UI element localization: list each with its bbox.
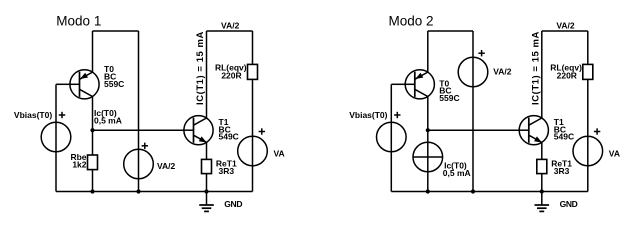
current source Ic(T0) xyxy=(413,142,443,172)
label + of VA xyxy=(594,131,600,133)
wire T0 base to Vbias xyxy=(56,83,70,85)
ground symbol xyxy=(199,192,214,212)
voltage source VA xyxy=(238,136,268,166)
label + of VA/2 xyxy=(478,52,484,54)
wire T0 base to Vbias xyxy=(391,83,405,85)
svg-text:VA/2: VA/2 xyxy=(493,67,512,77)
svg-text:VA/2: VA/2 xyxy=(221,20,240,30)
resistor RL(eqv) 220R xyxy=(248,64,258,79)
svg-text:RL(eqv)220R: RL(eqv)220R xyxy=(550,62,582,80)
wire T0 collector to node xyxy=(92,97,94,131)
wire T0 emitter to top rail xyxy=(92,31,94,72)
svg-text:T0BC559C: T0BC559C xyxy=(104,64,124,89)
ground rail xyxy=(391,191,588,193)
wire VA/2 branch vertical xyxy=(472,31,474,192)
label + of VA xyxy=(259,131,265,133)
wire node to T1 base xyxy=(428,129,519,131)
resistor ReT1 3R3 xyxy=(537,159,547,173)
ground symbol xyxy=(535,192,550,212)
transistor T1 (mode 1) xyxy=(184,116,213,145)
svg-text:IC(T1) = 15 mA: IC(T1) = 15 mA xyxy=(195,31,206,105)
wire node to T1 base xyxy=(93,129,184,131)
svg-text:RL(eqv)220R: RL(eqv)220R xyxy=(215,62,247,80)
svg-text:Vbias(T0): Vbias(T0) xyxy=(14,110,52,120)
voltage source VA xyxy=(573,136,603,166)
voltage source Vbias(T0) xyxy=(377,122,407,152)
transistor T0 (mode 2) xyxy=(405,70,434,99)
svg-text:T0BC559C: T0BC559C xyxy=(439,78,459,103)
node junction collector/base wire xyxy=(90,128,94,132)
svg-text:VA: VA xyxy=(609,148,620,158)
svg-text:Ic(T0)0,5 mA: Ic(T0)0,5 mA xyxy=(443,161,471,178)
wire top rail to RL branch xyxy=(542,30,588,32)
voltage source VA/2 (emitter supply) xyxy=(458,57,488,87)
svg-text:VA/2: VA/2 xyxy=(556,20,575,30)
node emitter branch at ground rail xyxy=(204,189,208,193)
node VA/2 branch at ground rail xyxy=(136,189,140,193)
node current source at ground rail xyxy=(426,189,430,193)
svg-text:T1BC549C: T1BC549C xyxy=(554,117,574,142)
wire T0 collector to node xyxy=(427,97,429,131)
node VA/2 branch at ground rail xyxy=(471,189,475,193)
wire node down to current source xyxy=(427,130,429,191)
svg-text:ReT13R3: ReT13R3 xyxy=(551,159,572,176)
transistor T0 (mode 1) xyxy=(70,70,99,99)
wire T0 emitter to top rail xyxy=(427,31,429,72)
svg-text:VA: VA xyxy=(274,148,285,158)
node junction collector/base wire xyxy=(426,128,430,132)
wire T1 collector up to VA/2 top rail xyxy=(206,31,208,118)
ground rail xyxy=(56,191,253,193)
svg-text:Modo 2: Modo 2 xyxy=(389,14,434,29)
wire top loop horizontal xyxy=(93,30,139,32)
svg-text:T1BC549C: T1BC549C xyxy=(219,117,239,142)
resistor ReT1 3R3 xyxy=(202,159,212,173)
svg-text:ReT13R3: ReT13R3 xyxy=(216,159,237,176)
wire node down to Rbe xyxy=(92,130,94,191)
svg-text:VA/2: VA/2 xyxy=(157,161,176,171)
svg-text:GND: GND xyxy=(224,199,242,209)
node Rbe at ground rail xyxy=(90,189,94,193)
svg-text:Modo 1: Modo 1 xyxy=(56,14,101,29)
wire T1 emitter to ReT1 xyxy=(541,142,543,191)
wire RL branch vertical xyxy=(252,31,254,192)
transistor T1 (mode 2) xyxy=(519,116,548,145)
wire T1 emitter to ReT1 xyxy=(206,142,208,191)
svg-text:Rbe1k2: Rbe1k2 xyxy=(70,152,86,170)
resistor Rbe 1k2 xyxy=(88,155,98,170)
svg-text:GND: GND xyxy=(560,199,578,209)
wire T1 collector up to VA/2 top rail xyxy=(541,31,543,118)
svg-text:Ic(T0)0,5 mA: Ic(T0)0,5 mA xyxy=(94,108,122,125)
voltage source Vbias(T0) xyxy=(41,122,71,152)
svg-text:Vbias(T0): Vbias(T0) xyxy=(349,110,387,120)
wire RL branch vertical xyxy=(587,31,589,192)
wire top loop horizontal xyxy=(428,30,473,32)
wire VA/2 branch vertical xyxy=(138,31,140,192)
label + of Vbias xyxy=(59,114,65,116)
wire top rail to RL branch xyxy=(207,30,253,32)
label + of Vbias xyxy=(394,114,400,116)
node emitter branch at ground rail xyxy=(540,189,544,193)
voltage source VA/2 (emitter supply) xyxy=(124,149,154,179)
svg-text:IC(T1) = 15 mA: IC(T1) = 15 mA xyxy=(530,31,541,105)
label + of VA/2 xyxy=(142,145,148,147)
resistor RL(eqv) 220R xyxy=(583,64,593,79)
